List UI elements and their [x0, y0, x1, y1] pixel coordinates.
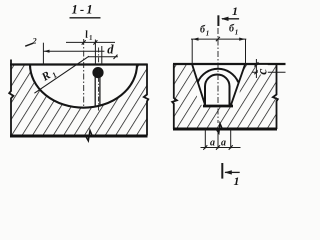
a-a ext lines [204, 130, 206, 149]
white tube outer semicircle [196, 69, 240, 106]
extension line at 101.8 [101, 46, 103, 65]
bottom edge zigzag at centerline [216, 124, 222, 134]
slash ticks l1 [82, 40, 86, 44]
trench bottom (thick) [203, 105, 233, 108]
slot wall right [99, 77, 101, 107]
left edge with break [172, 64, 177, 129]
groove centerline (dash-dot) [83, 39, 85, 108]
title 1-1 [70, 2, 101, 17]
a-a slashes [203, 145, 207, 149]
hatched block body (left) [11, 65, 147, 137]
bottom edge break zigzag [86, 131, 93, 141]
bottom edge (thick) [173, 128, 277, 131]
trench slant left [192, 64, 205, 106]
svg-text:1: 1 [206, 30, 210, 38]
label c (rotated) [258, 65, 268, 75]
hatched block body (right) [174, 64, 277, 129]
slot wall left [94, 77, 96, 106]
right edge with break [144, 64, 149, 136]
dim line d [88, 56, 118, 58]
pipe centerline overshoot [98, 48, 100, 111]
arrow at l2 left [44, 50, 50, 53]
extension line l2 [42, 43, 44, 65]
label l2 [25, 37, 36, 47]
svg-text:1: 1 [235, 28, 239, 36]
label б1 right [229, 23, 238, 36]
б1 center slash [216, 37, 220, 41]
tube outer arc [198, 69, 238, 82]
top edge [10, 63, 148, 65]
svg-text:c: c [256, 68, 271, 75]
tube inner horseshoe [205, 75, 230, 107]
section arrow top: bar [217, 15, 219, 26]
left edge with break [9, 60, 13, 137]
slash tick d [114, 55, 118, 59]
dim line l2 [43, 50, 104, 52]
section arrow bottom: arrow [225, 171, 240, 173]
б1 arrows [193, 38, 199, 41]
white trench trapezoid [192, 64, 245, 106]
c dim: vertical line [255, 59, 257, 78]
extension line at 95.4 [94, 40, 96, 65]
svg-text:2: 2 [32, 37, 37, 46]
б1 ext right [245, 39, 247, 64]
pipe circle (filled) [93, 68, 103, 78]
c slashes [254, 62, 258, 66]
svg-text:1: 1 [89, 34, 94, 42]
label l1 [84, 29, 93, 42]
section arrow top: arrow [222, 18, 239, 20]
groove arc [30, 65, 137, 108]
top edge (continuous, extends right) [173, 63, 286, 65]
section arrow bottom: bar [221, 163, 223, 179]
centerline (dash-dot vertical) [217, 28, 219, 123]
label б1 left [200, 25, 209, 38]
б1 dim line [191, 38, 246, 40]
label R1 [39, 66, 59, 86]
c ext line lower [252, 71, 286, 73]
right edge with break [273, 64, 278, 129]
svg-text:d: d [107, 43, 114, 57]
trench slant right [231, 64, 246, 106]
svg-text:a: a [210, 138, 215, 149]
bottom edge (thick) [10, 135, 148, 138]
a-a dim line [201, 147, 241, 149]
svg-text:1: 1 [232, 4, 238, 18]
б1 ext left [191, 39, 193, 64]
dim line l1 [66, 41, 115, 43]
svg-text:1-1: 1-1 [72, 2, 95, 16]
radius line R1 [34, 56, 89, 93]
svg-text:1: 1 [234, 174, 240, 188]
svg-text:a: a [221, 138, 226, 149]
